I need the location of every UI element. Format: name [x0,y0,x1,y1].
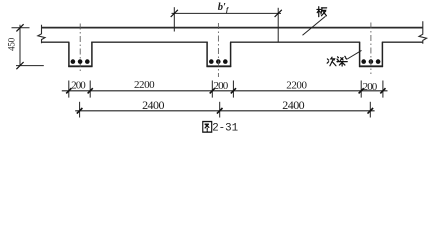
slab bottom line segment 4 [382,41,423,43]
row2 dimension line [75,110,374,112]
svg-text:b′f: b′f [218,2,229,14]
row2 extension stub right [369,102,371,118]
caption figure number glyph tu [203,122,212,133]
slab top chord line [42,27,424,29]
centerline rib 1 [79,24,81,74]
row2 ticks [77,108,373,114]
row1 extension line rib1 left [68,81,70,98]
left slab edge break line [38,25,45,43]
dimension 450 top tick [16,24,23,31]
rebar dots rib 3 [361,59,380,64]
rib beam 3 bottom line [359,65,383,67]
leader line for secondary beam label [347,50,361,59]
svg-text:2400: 2400 [282,98,304,112]
b'f left extension line [173,7,175,31]
row2 extension stub middle [219,102,221,118]
svg-text:200: 200 [363,81,378,93]
rebar dots rib 2 [209,59,228,64]
row1 ticks [66,88,385,93]
row1 extension line rib3 right [382,81,384,98]
row2 extension stub left [79,102,81,118]
rib beam 3 outline [360,42,383,66]
b'f right extension line [277,8,279,42]
label ci (secondary) glyph [327,57,336,66]
dimension 450 bottom tick [16,62,23,69]
slab bottom line segment 3 [230,41,360,43]
centerline rib 2 [217,23,219,77]
slab bottom line segment 2 [91,41,208,43]
svg-text:200: 200 [71,79,86,91]
centerline rib 3 [370,23,372,75]
svg-text:200: 200 [214,80,229,92]
svg-text:450: 450 [7,37,17,51]
b'f right tick [275,10,282,17]
label ban (slab) glyph [317,7,327,17]
svg-text:2400: 2400 [142,98,164,112]
row1 extension line rib3 left [360,81,362,98]
svg-text:2200: 2200 [286,80,307,92]
row1 extension line rib2 left [211,81,213,98]
dimension 450 vertical line [19,25,21,66]
svg-text:2-31: 2-31 [212,122,238,134]
row1 extension line rib1 right [89,81,91,98]
leader line for slab label [303,16,326,35]
right slab edge break line [419,21,427,44]
rib beam 2 outline [207,42,231,66]
label liang (beam) glyph [337,56,347,66]
dimension 450 top extension line [12,27,30,29]
b'f left tick [171,10,178,17]
dimension 450 bottom extension line [16,65,44,67]
rib beam 1 bottom line [68,65,92,67]
rib beam 1 outline [69,42,92,66]
slab bottom line segment 1 [42,41,70,43]
top dimension b'f line [172,12,282,14]
rib beam 2 bottom line [207,65,232,67]
svg-text:2200: 2200 [134,79,155,91]
row1 dimension line [62,90,388,92]
row1 extension line rib2 right [232,81,234,98]
rebar dots rib 1 [71,59,90,64]
